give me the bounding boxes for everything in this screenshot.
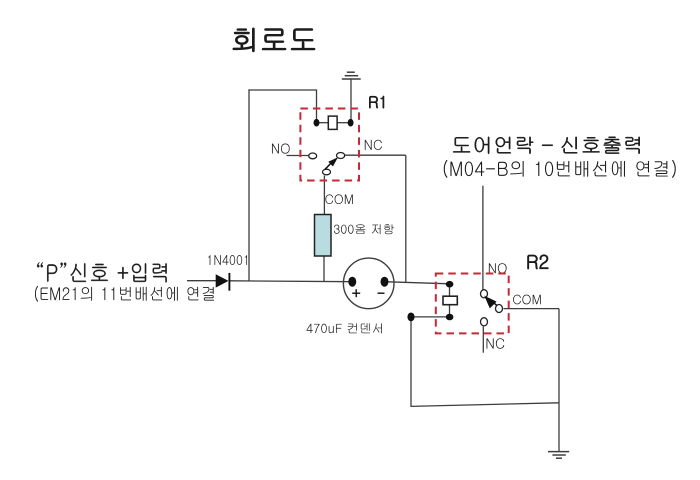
wire: R2 NO lead riser from output label — [482, 186, 484, 290]
R2 coil terminal dot top — [446, 281, 454, 288]
wire: bottom horizontal — [411, 403, 560, 407]
wire: R1 coil leads — [317, 122, 329, 124]
wire: ground riser to R1 coil right terminal — [350, 80, 352, 123]
diode value label 1N4001 — [208, 255, 247, 265]
R1 coil terminal dot right — [348, 119, 354, 127]
capacitor right plate dot — [381, 277, 389, 287]
relay R2 dashed box — [436, 274, 509, 334]
capacitor circle (470uF) — [343, 258, 394, 309]
title text 회로도 (circuit diagram) — [233, 28, 315, 52]
wire: left riser from diode junction up — [248, 89, 250, 281]
wire: R2 COM to right — [504, 308, 560, 310]
diode cathode bar — [228, 273, 230, 291]
wire: NC riser down to main line — [405, 155, 407, 282]
R2 NC contact circle — [481, 318, 488, 326]
label (EM21의 11번배선에 연결 — [35, 286, 214, 302]
R1 NC contact circle — [337, 153, 345, 159]
wire: R1 COM lead down from pivot — [323, 176, 325, 215]
wire: R1 NC contact to right — [344, 154, 406, 156]
R2 COM contact circle — [496, 305, 503, 313]
relay R1 NO label — [272, 143, 290, 153]
wire: R1 NO contact lead — [287, 155, 310, 157]
relay R1 designator — [369, 96, 383, 108]
wire: right riser down to ground — [558, 309, 560, 452]
capacitor left plate dot — [348, 277, 356, 287]
wire: diode cathode to capacitor left plate — [230, 280, 352, 283]
wire: input wire to diode — [187, 280, 217, 282]
wire: top horizontal — [248, 89, 316, 91]
R1 pivot (COM) contact circle — [323, 169, 331, 175]
relay R2 coil — [443, 296, 457, 305]
relay R1 COM label — [325, 194, 352, 204]
relay R2 NO label — [489, 263, 507, 273]
label 도어언락 – 신호출력 (door unlock - signal output) — [453, 137, 640, 154]
junction dot left of R2 coil — [407, 313, 414, 322]
label "P"신호 +입력 (P signal + input) — [37, 262, 166, 282]
wire: R2 coil leads — [449, 284, 451, 297]
resistor body (300 ohm) — [315, 215, 332, 257]
wire: R2 coil bottom horizontal — [411, 316, 450, 318]
relay R1 dashed box — [300, 109, 359, 181]
R2 coil terminal dot bottom — [446, 314, 454, 321]
R2 switch arm arrow — [493, 302, 497, 305]
diode 1N4001 triangle — [216, 274, 229, 287]
wire: capacitor right plate to R2 coil — [385, 282, 450, 284]
ground symbol (top, inverted) — [347, 71, 355, 73]
wire: resistor bottom lead — [323, 256, 325, 282]
R1 switch arm arrow — [325, 163, 332, 170]
resistor value label 300옴 저항 (300 ohm resistor) — [334, 224, 394, 234]
wire: R2 NC open lead — [482, 327, 484, 353]
wire: left riser down to bottom wire — [410, 317, 412, 407]
relay R2 designator — [528, 255, 549, 269]
R1 coil terminal dot left — [314, 119, 320, 127]
capacitor value label 470uF 컨덴서 (470uF capacitor) — [306, 323, 381, 333]
relay R1 coil — [328, 116, 337, 129]
R1 NO contact circle — [309, 153, 317, 159]
capacitor + polarity mark — [352, 292, 360, 294]
capacitor - polarity mark — [378, 292, 385, 294]
relay R2 COM label — [513, 295, 541, 305]
relay R2 NC label — [487, 338, 505, 349]
R2 NO contact circle — [481, 290, 488, 298]
label (M04-B의 10번배선에 연결) — [444, 160, 676, 178]
ground symbol (bottom right) — [548, 451, 569, 453]
relay R1 NC label — [365, 140, 382, 150]
wire: down to R1 coil left terminal — [316, 89, 318, 122]
